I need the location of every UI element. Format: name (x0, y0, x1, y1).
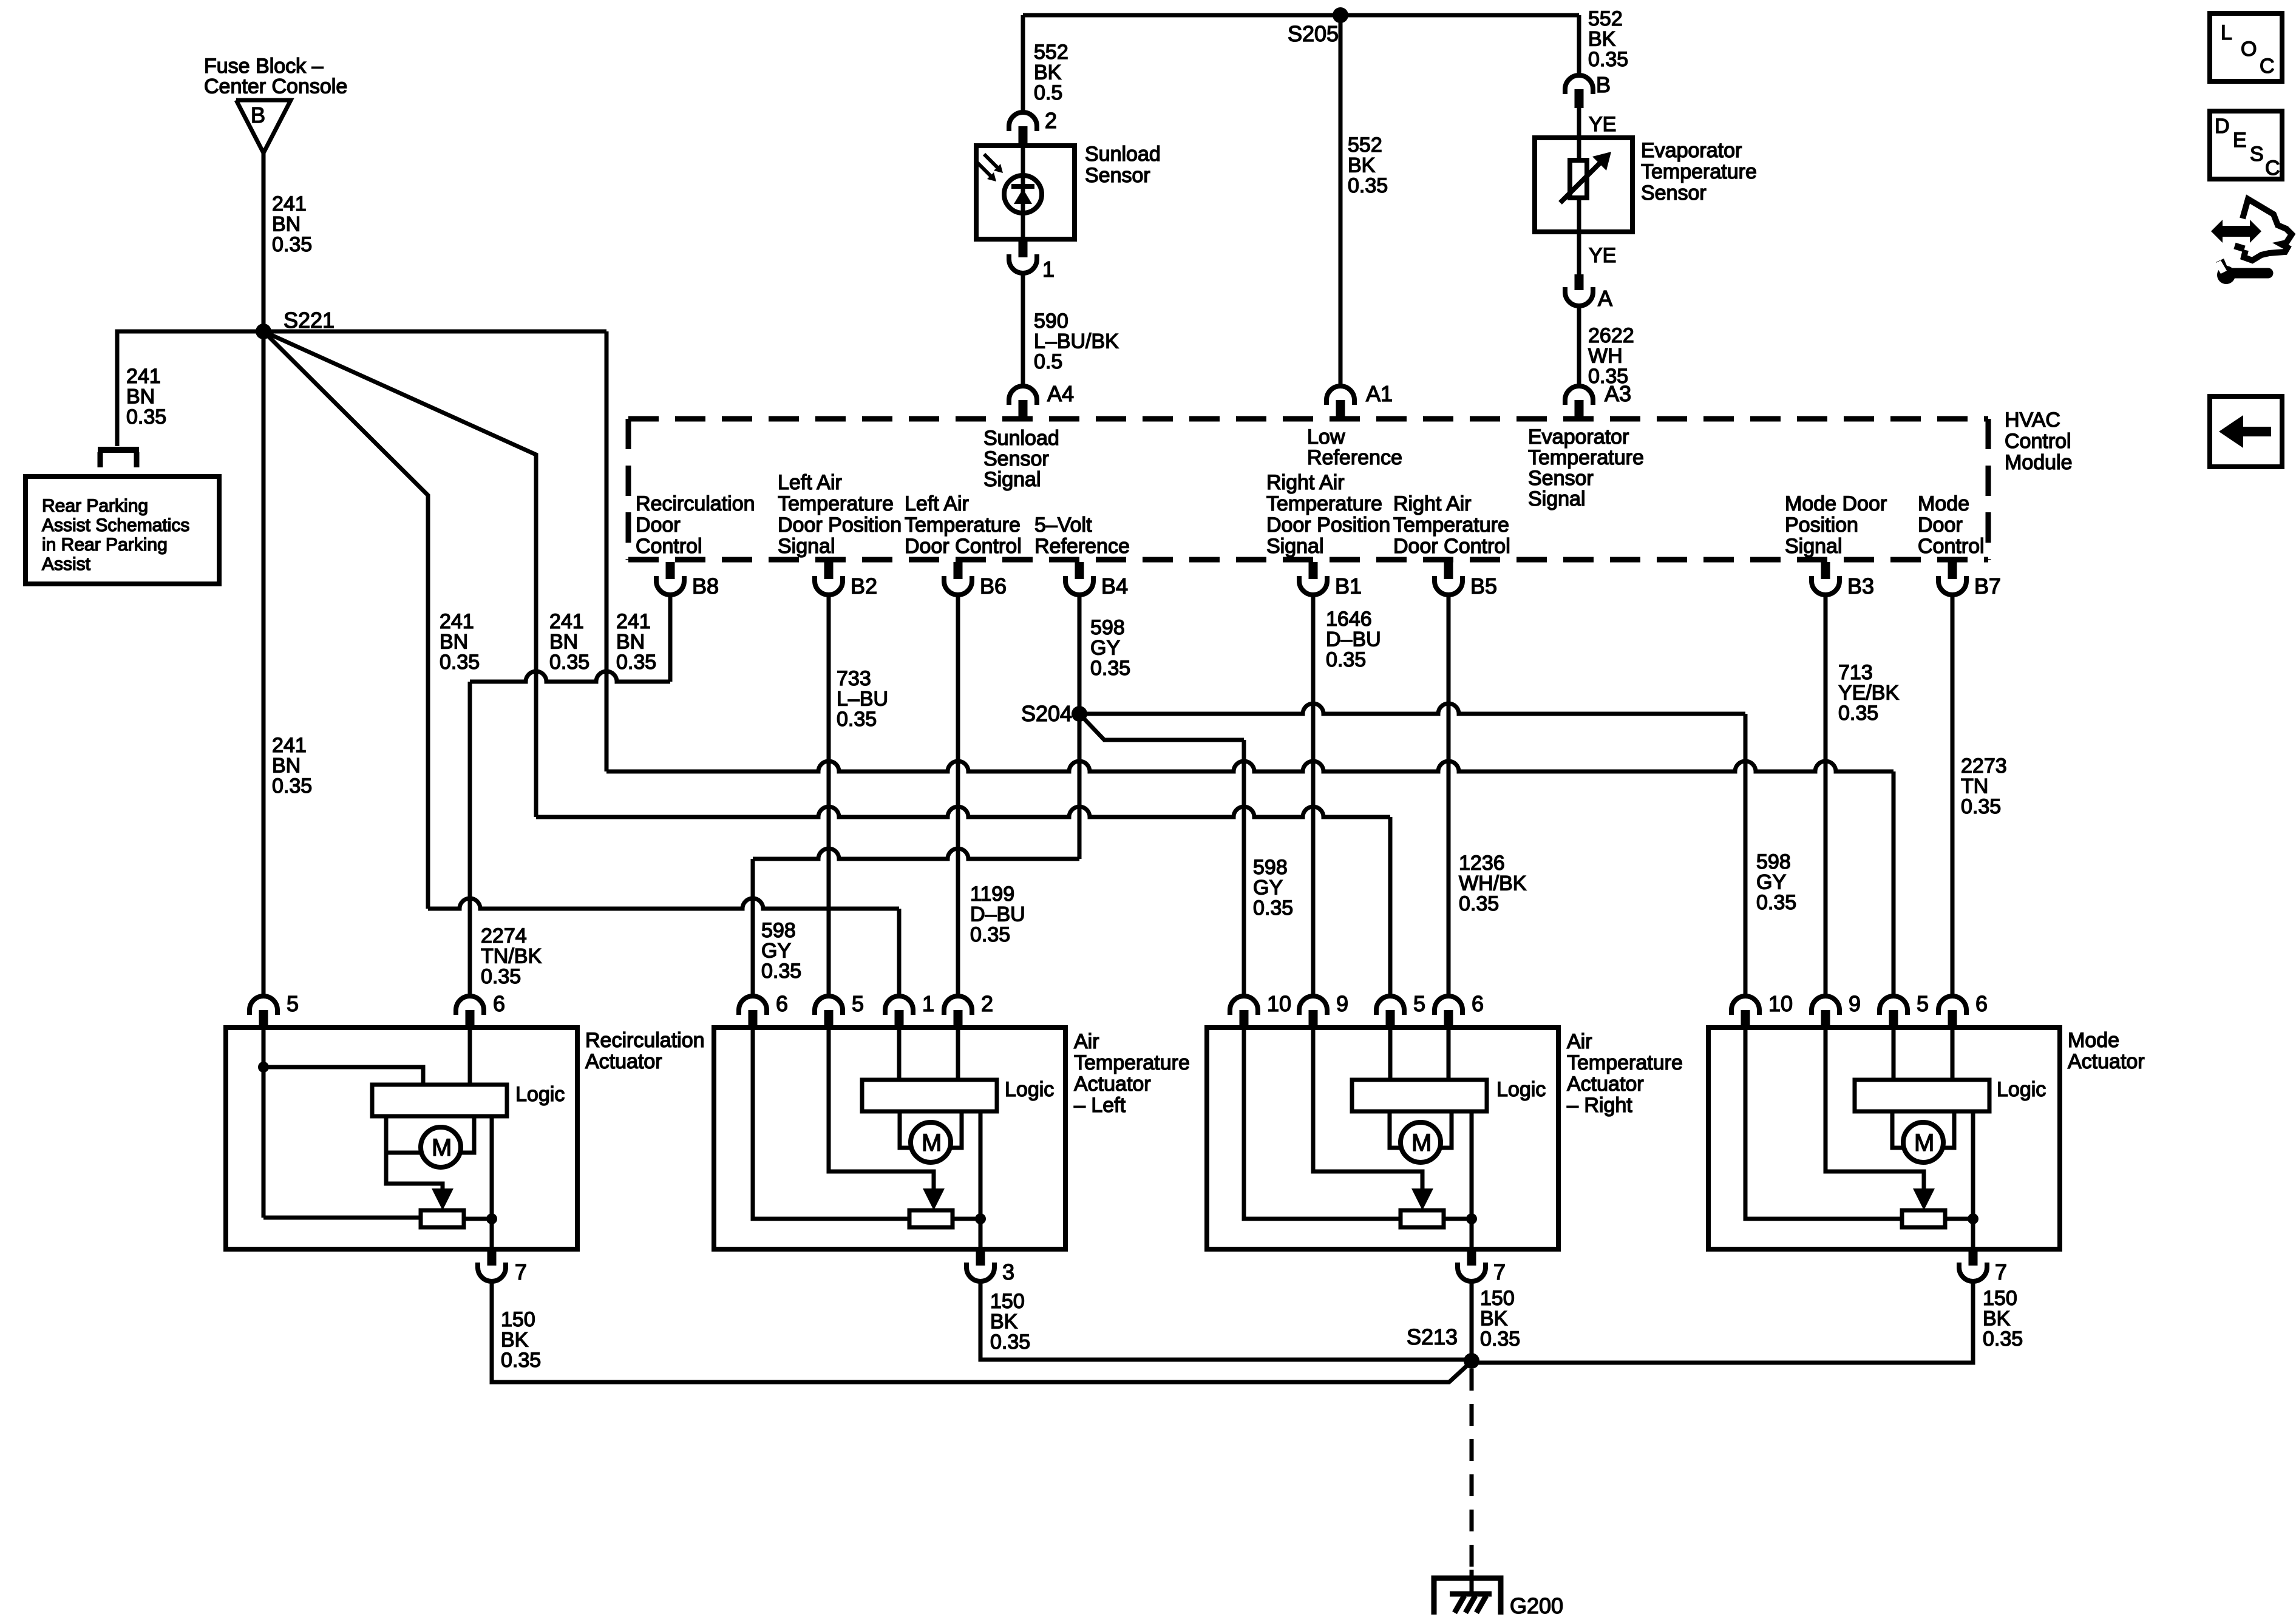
svg-text:Logic: Logic (515, 1083, 565, 1106)
svg-text:Actuator: Actuator (585, 1050, 662, 1073)
svg-text:GY: GY (761, 940, 791, 963)
svg-text:6: 6 (493, 991, 505, 1016)
svg-text:2: 2 (981, 991, 993, 1016)
wire 241 BN fuse to S221 (262, 153, 266, 331)
svg-text:O: O (2241, 38, 2257, 61)
svg-text:S: S (2250, 143, 2264, 166)
svg-text:GY: GY (1756, 871, 1786, 894)
air temperature actuator left pin 2 connector (944, 996, 972, 1015)
svg-text:BN: BN (549, 631, 578, 654)
mode actuator pin 5 connector (1880, 996, 1907, 1015)
wire pin10 to pot left (1244, 1030, 1401, 1219)
wire pot left (263, 1216, 421, 1220)
svg-text:150: 150 (1983, 1287, 2017, 1310)
svg-text:Door Position: Door Position (778, 514, 902, 537)
air temperature actuator left pin 5 connector (815, 996, 843, 1015)
svg-text:0.35: 0.35 (616, 651, 656, 674)
motor wires (900, 1111, 911, 1148)
svg-text:Door Control: Door Control (905, 535, 1022, 558)
svg-text:0.35: 0.35 (1348, 174, 1388, 197)
HVAC connector B1 (1309, 562, 1318, 579)
svg-text:BK: BK (990, 1310, 1018, 1334)
HVAC connector B2 (824, 562, 834, 579)
svg-text:Control: Control (636, 535, 702, 558)
svg-text:BK: BK (1983, 1307, 2011, 1331)
svg-text:5: 5 (1917, 991, 1929, 1016)
svg-text:S204: S204 (1021, 701, 1072, 726)
splice S204 (1072, 706, 1087, 722)
wire YE below sensor (1577, 198, 1581, 274)
svg-text:BK: BK (1348, 154, 1376, 177)
svg-text:Right Air: Right Air (1266, 471, 1345, 494)
svg-text:Actuator: Actuator (1074, 1073, 1151, 1096)
LOC icon (2210, 13, 2282, 81)
svg-text:Door: Door (1918, 514, 1963, 537)
evaporator sensor pin B connector (1565, 75, 1593, 94)
svg-text:GY: GY (1090, 637, 1120, 660)
svg-text:Logic: Logic (1005, 1078, 1054, 1101)
wire S221 left branch (263, 330, 606, 334)
svg-text:Logic: Logic (1997, 1078, 2046, 1101)
wire YE into sensor (1577, 108, 1581, 160)
svg-text:3: 3 (1002, 1259, 1014, 1284)
svg-text:0.5: 0.5 (1034, 350, 1062, 373)
svg-text:713: 713 (1838, 661, 1873, 684)
svg-text:6: 6 (776, 991, 788, 1016)
air temperature actuator left pin 6 connector (739, 996, 767, 1015)
splice S221 (256, 324, 271, 339)
svg-text:Door Position: Door Position (1266, 514, 1390, 537)
svg-text:Signal: Signal (983, 468, 1041, 491)
svg-text:Reference: Reference (1034, 535, 1130, 558)
svg-text:Temperature: Temperature (905, 514, 1021, 537)
svg-text:M: M (432, 1134, 452, 1161)
svg-text:Temperature: Temperature (1567, 1051, 1683, 1074)
svg-text:HVAC: HVAC (2005, 408, 2060, 432)
svg-text:A3: A3 (1605, 381, 1631, 406)
svg-text:Left Air: Left Air (778, 471, 842, 494)
svg-text:D–BU: D–BU (1326, 628, 1381, 651)
svg-text:0.35: 0.35 (126, 405, 166, 429)
wire pin6 to pot left (753, 1030, 909, 1219)
svg-text:Right Air: Right Air (1393, 492, 1472, 515)
off-page connector to rear parking assist (98, 447, 139, 453)
svg-text:241: 241 (272, 192, 307, 215)
svg-text:0.35: 0.35 (1480, 1327, 1520, 1351)
wire pin5 internal (262, 1030, 266, 1218)
svg-text:Temperature: Temperature (1641, 160, 1757, 183)
svg-text:BN: BN (126, 385, 155, 408)
svg-text:Control: Control (2005, 430, 2071, 453)
svg-text:0.35: 0.35 (1983, 1327, 2023, 1351)
svg-text:9: 9 (1336, 991, 1348, 1016)
svg-text:S205: S205 (1288, 21, 1339, 46)
svg-text:YE: YE (1589, 113, 1616, 136)
potentiometer (1401, 1210, 1444, 1227)
svg-text:733: 733 (837, 667, 871, 690)
svg-text:A1: A1 (1366, 381, 1393, 406)
svg-text:150: 150 (501, 1308, 535, 1331)
svg-text:M: M (1411, 1130, 1432, 1156)
svg-text:241: 241 (440, 610, 474, 633)
svg-text:Signal: Signal (1528, 487, 1586, 510)
svg-text:Control: Control (1918, 535, 1985, 558)
wire 598 GY S204 to right actuator pin 10 (1079, 714, 1244, 740)
svg-text:Mode: Mode (2068, 1029, 2119, 1052)
svg-text:241: 241 (272, 734, 307, 757)
wire 150 BK mode pin7 to S213 (1472, 1282, 1973, 1363)
svg-text:9: 9 (1849, 991, 1861, 1016)
logic block (372, 1085, 507, 1116)
svg-text:0.35: 0.35 (501, 1349, 541, 1372)
svg-text:5: 5 (287, 991, 299, 1016)
svg-text:D–BU: D–BU (970, 903, 1025, 926)
svg-text:G200: G200 (1510, 1593, 1563, 1617)
svg-text:1646: 1646 (1326, 608, 1372, 631)
svg-text:7: 7 (1995, 1259, 2007, 1284)
svg-text:Reference: Reference (1307, 446, 1402, 469)
svg-text:Air: Air (1074, 1030, 1099, 1053)
sunload sensor light arrows (984, 154, 999, 169)
wire pin5 pin6 internal (1388, 1030, 1393, 1080)
svg-text:BK: BK (1034, 61, 1062, 84)
svg-text:Signal: Signal (778, 535, 835, 558)
air temperature actuator left pin 1 connector (885, 996, 913, 1015)
svg-text:552: 552 (1588, 7, 1623, 30)
svg-text:Signal: Signal (1266, 535, 1324, 558)
wire pin9 to wiper arrow (1826, 1030, 1924, 1188)
svg-text:A: A (1598, 286, 1612, 311)
svg-text:598: 598 (761, 919, 796, 942)
wire pot right to pin 3 (953, 1217, 980, 1221)
svg-text:– Left: – Left (1074, 1094, 1126, 1117)
mode actuator pin 9 connector (1812, 996, 1839, 1015)
svg-text:0.35: 0.35 (1253, 897, 1293, 920)
svg-text:5: 5 (1413, 991, 1425, 1016)
motor wires (1892, 1111, 1903, 1148)
wire pot right to pin 7 (464, 1217, 492, 1221)
HVAC connector B3 (1821, 562, 1830, 579)
wire 733 L-BU B2 to left actuator pin 5 (827, 597, 831, 996)
svg-text:Rear Parking: Rear Parking (42, 496, 148, 516)
svg-text:0.35: 0.35 (549, 651, 589, 674)
air temperature actuator right pin 6 connector (1435, 996, 1462, 1015)
svg-text:0.5: 0.5 (1034, 81, 1062, 104)
svg-text:Temperature: Temperature (1074, 1051, 1190, 1074)
svg-text:BN: BN (272, 754, 301, 778)
svg-text:7: 7 (515, 1259, 527, 1284)
recirculation actuator box (226, 1028, 577, 1249)
svg-text:Door: Door (636, 514, 681, 537)
svg-text:S213: S213 (1407, 1324, 1458, 1349)
svg-text:2274: 2274 (481, 924, 527, 947)
wire sunload sensor pin 2 drop (1021, 15, 1025, 113)
svg-text:0.35: 0.35 (272, 775, 312, 798)
svg-text:0.35: 0.35 (1459, 892, 1499, 915)
mode actuator pin 7 connector (1969, 1249, 1978, 1266)
wiper arrow (386, 1153, 443, 1188)
wire 241 BN S221 diagonal to air temp actuator right pin 5 (263, 331, 536, 817)
motor (911, 1122, 951, 1162)
motor wires (386, 1116, 421, 1153)
sunload sensor pin 2 connector (1009, 112, 1037, 131)
svg-text:0.35: 0.35 (990, 1331, 1030, 1354)
rear parking assist reference box (25, 476, 219, 584)
recirculation pin 7 connector (487, 1249, 497, 1266)
wire 2622 WH to HVAC A3 (1577, 306, 1581, 386)
wire 241 BN S221 to mode actuator pin 5 (vertical from S221 bus corner) (605, 331, 609, 771)
svg-text:241: 241 (549, 610, 584, 633)
svg-text:6: 6 (1975, 991, 1988, 1016)
svg-text:– Right: – Right (1567, 1094, 1632, 1117)
HVAC control module box bottom edge (628, 557, 1988, 563)
svg-text:150: 150 (1480, 1287, 1515, 1310)
svg-text:BK: BK (1480, 1307, 1508, 1331)
svg-text:B4: B4 (1101, 574, 1128, 598)
svg-text:YE/BK: YE/BK (1838, 682, 1899, 705)
HVAC connector B7 (1948, 562, 1957, 579)
splice S205 (1333, 7, 1348, 23)
svg-text:0.35: 0.35 (1588, 48, 1628, 71)
HVAC connector A4 (1009, 386, 1037, 405)
svg-text:BN: BN (272, 213, 301, 236)
svg-text:10: 10 (1267, 991, 1291, 1016)
recirculation actuator pin 5 connector (250, 996, 277, 1015)
svg-text:Signal: Signal (1785, 535, 1843, 558)
wire pin5 pin6 internal (1892, 1030, 1896, 1080)
wire pin6 internal (468, 1030, 472, 1085)
svg-text:0.35: 0.35 (481, 965, 521, 988)
logic block (862, 1080, 997, 1111)
svg-text:in Rear Parking: in Rear Parking (42, 535, 168, 555)
evaporator sensor thermistor (1570, 160, 1587, 198)
svg-text:C: C (2265, 157, 2280, 180)
svg-text:TN/BK: TN/BK (481, 945, 542, 968)
svg-text:GY: GY (1253, 876, 1283, 900)
svg-text:Temperature: Temperature (1266, 492, 1382, 515)
svg-text:Temperature: Temperature (1393, 514, 1509, 537)
mode actuator pin 6 connector (1938, 996, 1966, 1015)
wire pin5 to wiper arrow (829, 1030, 934, 1188)
svg-text:B: B (251, 103, 265, 127)
wire 150 BK S213 to G200 (dashed) (1470, 1369, 1474, 1578)
svg-text:BK: BK (501, 1329, 529, 1352)
svg-text:Logic: Logic (1496, 1078, 1546, 1101)
svg-text:7: 7 (1493, 1259, 1506, 1284)
mode actuator pin 10 connector (1731, 996, 1759, 1015)
svg-text:241: 241 (616, 610, 651, 633)
motor (421, 1127, 461, 1167)
svg-text:Sensor: Sensor (1641, 181, 1707, 205)
svg-text:Temperature: Temperature (778, 492, 894, 515)
svg-text:L: L (2221, 21, 2232, 44)
left actuator pin 3 connector (976, 1249, 985, 1266)
svg-text:Evaporator: Evaporator (1641, 139, 1742, 162)
wire 2273 TN B7 to mode actuator pin 6 (1951, 597, 1955, 996)
svg-text:Sensor: Sensor (1085, 164, 1150, 187)
svg-text:Mode Door: Mode Door (1785, 492, 1887, 515)
wire 590 L-BU/BK to HVAC A4 (1021, 273, 1025, 386)
svg-text:M: M (1914, 1130, 1934, 1156)
svg-text:1: 1 (1042, 257, 1055, 282)
svg-text:2: 2 (1045, 108, 1057, 133)
svg-text:0.35: 0.35 (1838, 702, 1878, 725)
svg-text:Recirculation: Recirculation (585, 1029, 705, 1052)
svg-text:Recirculation: Recirculation (636, 492, 755, 515)
sunload sensor box (976, 146, 1075, 239)
HVAC control module box top edge (628, 416, 1988, 422)
svg-text:241: 241 (126, 365, 161, 388)
ground G200 symbol (1434, 1578, 1501, 1615)
svg-text:Assist Schematics: Assist Schematics (42, 515, 189, 535)
svg-text:2622: 2622 (1588, 324, 1634, 347)
wire 552 BK to evaporator sensor pin B (1577, 15, 1581, 76)
HVAC connector B4 (1075, 562, 1084, 579)
potentiometer (421, 1210, 464, 1227)
fuse block connector B (triangle) (236, 100, 291, 153)
wire 552 BK S205 to HVAC A1 (1339, 15, 1343, 386)
svg-text:Assist: Assist (42, 554, 91, 574)
svg-text:BK: BK (1588, 28, 1616, 51)
wire 1199 D-BU B6 to left actuator pin 2 (956, 597, 960, 996)
svg-text:Sunload: Sunload (1085, 143, 1161, 166)
mode actuator box (1708, 1028, 2060, 1249)
svg-text:D: D (2215, 115, 2230, 138)
wire 150 BK recirc pin7 to S213 (492, 1282, 1472, 1382)
svg-text:Center Console: Center Console (204, 75, 347, 98)
svg-text:0.35: 0.35 (1756, 891, 1796, 914)
vehicle service icon (2211, 220, 2261, 243)
svg-text:Position: Position (1785, 514, 1858, 537)
DESC icon (2210, 111, 2282, 179)
svg-text:Actuator: Actuator (1567, 1073, 1644, 1096)
svg-text:Sensor: Sensor (983, 447, 1049, 470)
motor wires (1390, 1111, 1401, 1148)
svg-text:M: M (922, 1130, 942, 1156)
svg-text:WH/BK: WH/BK (1459, 872, 1527, 895)
air temperature actuator right pin 5 connector (1376, 996, 1404, 1015)
svg-text:B5: B5 (1470, 574, 1497, 598)
svg-text:C: C (2260, 55, 2275, 78)
svg-text:B: B (1596, 72, 1611, 97)
motor (1903, 1122, 1943, 1162)
potentiometer (1902, 1210, 1945, 1227)
svg-text:10: 10 (1768, 991, 1793, 1016)
svg-text:Sensor: Sensor (1528, 467, 1594, 490)
svg-text:B8: B8 (692, 574, 719, 598)
wire 241 BN to right actuator pin 5 (line B) (536, 807, 1390, 817)
evaporator temperature sensor box (1535, 138, 1632, 232)
svg-text:Low: Low (1307, 425, 1345, 449)
HVAC connector B8 (666, 562, 675, 579)
svg-text:598: 598 (1090, 616, 1125, 639)
svg-text:A4: A4 (1047, 381, 1074, 406)
svg-text:YE: YE (1589, 244, 1616, 267)
svg-text:E: E (2233, 129, 2247, 152)
sunload sensor photodiode (1004, 175, 1042, 213)
motor (1401, 1122, 1441, 1162)
wire 2274 TN/BK B8 to recirculation actuator pin 6 (668, 597, 673, 682)
svg-text:150: 150 (990, 1290, 1025, 1313)
wire 241 BN S221 diagonal to air temp actuator left pin 1 (263, 331, 428, 909)
air temperature actuator right pin 10 connector (1230, 996, 1258, 1015)
svg-text:B7: B7 (1974, 574, 2001, 598)
svg-text:0.35: 0.35 (1326, 648, 1366, 671)
svg-text:1236: 1236 (1459, 852, 1505, 875)
logic block (1352, 1080, 1487, 1111)
evaporator sensor pin A connector (1575, 274, 1584, 290)
wire 598 GY S204 to left actuator pin 6 (1078, 714, 1082, 859)
sunload sensor pin 1 connector (1019, 239, 1028, 257)
svg-text:Module: Module (2005, 451, 2073, 474)
svg-text:Left Air: Left Air (905, 492, 969, 515)
logic block (1855, 1080, 1989, 1111)
sunload sensor internal wire (1021, 146, 1025, 239)
svg-text:0.35: 0.35 (1090, 657, 1130, 680)
svg-text:Evaporator: Evaporator (1528, 425, 1629, 449)
svg-text:590: 590 (1034, 310, 1068, 333)
back arrow icon (2210, 396, 2282, 467)
HVAC connector B5 (1444, 562, 1453, 579)
svg-text:Door Control: Door Control (1393, 535, 1510, 558)
wire 598 GY B4 to splice S204 (1078, 597, 1082, 714)
wire pot right to pin 7 (1945, 1217, 1973, 1221)
wire 552 BK top bus S205 (1023, 13, 1579, 18)
svg-text:Temperature: Temperature (1528, 446, 1644, 469)
svg-text:BN: BN (440, 631, 468, 654)
svg-text:B3: B3 (1847, 574, 1874, 598)
svg-text:5: 5 (852, 991, 864, 1016)
svg-text:TN: TN (1961, 775, 1988, 798)
svg-text:WH: WH (1588, 345, 1623, 368)
svg-text:BN: BN (616, 631, 645, 654)
svg-text:552: 552 (1034, 41, 1068, 64)
wire 150 BK left pin3 to S213 (980, 1282, 1472, 1360)
wire pin9 to wiper arrow (1313, 1030, 1422, 1188)
wire pin10 to pot left (1745, 1030, 1902, 1219)
svg-text:Fuse Block –: Fuse Block – (204, 55, 324, 78)
HVAC control module box right edge (1986, 419, 1991, 560)
right actuator pin 7 connector (1467, 1249, 1476, 1266)
svg-text:598: 598 (1253, 856, 1288, 879)
wire 150 BK right pin7 to S213 (1470, 1282, 1474, 1361)
wire 1646 D-BU B1 to right actuator pin 9 (1311, 597, 1316, 996)
air temperature actuator left box (714, 1028, 1065, 1249)
HVAC connector A1 (1326, 386, 1354, 405)
svg-text:B2: B2 (851, 574, 877, 598)
svg-text:2273: 2273 (1961, 754, 2007, 778)
svg-text:B6: B6 (980, 574, 1007, 598)
splice S213 (1464, 1353, 1479, 1369)
wire 241 BN S221 to recirculation actuator pin 5 (262, 331, 266, 996)
wire 1236 WH/BK B5 to right actuator pin 6 (1447, 597, 1451, 996)
HVAC control module box left edge (626, 419, 631, 560)
svg-text:552: 552 (1348, 134, 1382, 157)
svg-text:0.35: 0.35 (272, 233, 312, 256)
svg-text:L–BU/BK: L–BU/BK (1034, 330, 1119, 353)
svg-text:5–Volt: 5–Volt (1034, 514, 1092, 537)
svg-text:S221: S221 (284, 308, 335, 333)
wire 241 BN to left actuator pin 1 (line D) (428, 898, 899, 909)
svg-text:0.35: 0.35 (970, 923, 1010, 946)
wire pin1 pin2 internal (897, 1030, 902, 1080)
svg-text:0.35: 0.35 (1961, 795, 2001, 818)
svg-text:1199: 1199 (970, 883, 1014, 906)
recirculation actuator pin 6 connector (456, 996, 484, 1015)
svg-text:6: 6 (1472, 991, 1484, 1016)
svg-text:L–BU: L–BU (837, 688, 888, 711)
wire pot right to pin 7 (1444, 1217, 1472, 1221)
